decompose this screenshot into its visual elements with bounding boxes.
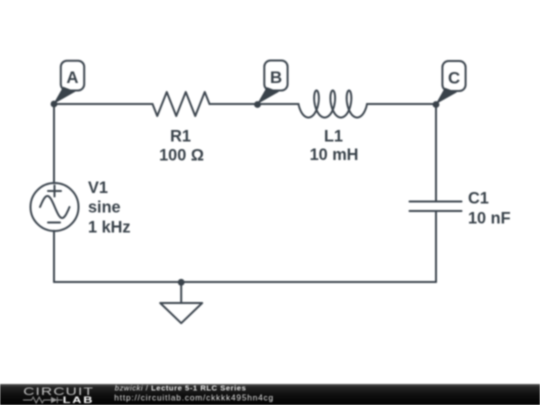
inductor L1	[299, 91, 368, 118]
svg-text:sine: sine	[88, 199, 121, 217]
node A dot	[51, 101, 58, 108]
wire top rail node A to R1	[54, 103, 153, 105]
voltage source V1 sine wave	[40, 196, 70, 218]
svg-text:B: B	[270, 68, 282, 87]
voltage source V1 circle	[31, 183, 79, 231]
svg-text:C: C	[448, 68, 460, 87]
ground stub wire	[180, 282, 182, 303]
node flag C box	[442, 61, 465, 91]
svg-text:A: A	[66, 68, 78, 87]
svg-text:bzwicki / Lecture 5-1 RLC Seri: bzwicki / Lecture 5-1 RLC Series	[115, 384, 247, 393]
logo diode triangle	[51, 397, 57, 403]
resistor R1	[153, 92, 210, 116]
wire inductor L1 to node C	[367, 103, 436, 105]
svg-text:V1: V1	[88, 179, 108, 197]
logo wire with resistor zigzag	[23, 397, 51, 403]
logo diode bar	[56, 397, 58, 403]
svg-text:C1: C1	[468, 190, 489, 208]
svg-text:R1: R1	[170, 128, 191, 146]
svg-text:L1: L1	[324, 128, 343, 146]
wire bottom rail	[54, 281, 436, 283]
node C dot	[433, 101, 440, 108]
svg-text:10 nF: 10 nF	[468, 209, 511, 227]
wire node A down to V1 top	[53, 104, 55, 183]
capacitor C1	[410, 202, 462, 212]
logo wire after diode	[58, 399, 63, 401]
node flag A pointer	[53, 87, 75, 104]
node flag C pointer	[436, 88, 457, 105]
svg-text:10 mH: 10 mH	[310, 146, 359, 164]
wire R1 to inductor L1	[210, 103, 299, 105]
voltage source V1 minus sign	[48, 222, 60, 224]
svg-text:1 kHz: 1 kHz	[88, 219, 131, 237]
svg-text:http://circuitlab.com/ckkkk495: http://circuitlab.com/ckkkk495hn4cg	[114, 393, 274, 403]
node flag B box	[264, 61, 287, 91]
wire C1 bottom plate to bottom rail	[435, 212, 437, 282]
svg-text:100 Ω: 100 Ω	[159, 146, 204, 164]
ground symbol	[160, 303, 202, 323]
voltage source V1 plus sign	[48, 186, 61, 197]
node flag B pointer	[257, 87, 279, 104]
wire V1 bottom to bottom rail	[53, 231, 55, 282]
node B dot	[254, 101, 261, 108]
ground node dot	[178, 279, 185, 286]
node flag A box	[61, 61, 84, 91]
wire node C down to C1 top plate	[435, 104, 437, 201]
svg-text:LAB: LAB	[63, 395, 94, 405]
